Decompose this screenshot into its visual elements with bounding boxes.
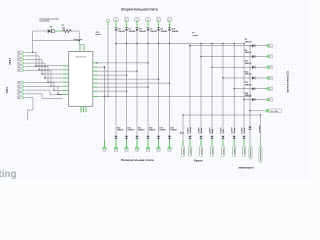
connector XS2 pin 2: [17, 85, 23, 87]
wire XS1.5 to U1: [25, 66, 48, 68]
wire D16 out: [126, 139, 128, 147]
svg-text:1N4007: 1N4007: [186, 127, 189, 133]
svg-text:1N4148: 1N4148: [245, 83, 252, 86]
wire D9 down: [158, 31, 160, 134]
wire XS1.2 to U1: [25, 55, 39, 57]
wire XS2.5 down: [25, 97, 33, 99]
wire B6 stub: [243, 139, 245, 146]
svg-text:Вторая большая плата: Вторая большая плата: [121, 7, 157, 11]
connector XS1 pin 3: [17, 58, 23, 60]
wire B5 stub: [233, 139, 235, 146]
svg-text:Вх4: Вх4: [18, 63, 21, 65]
svg-text:1N4148: 1N4148: [245, 94, 252, 97]
svg-text:замык: замык: [192, 35, 198, 37]
wire XS1.6 to U1: [25, 69, 51, 71]
diode DB5: [233, 136, 236, 139]
wire B1 stub: [189, 139, 191, 146]
terminal +5V: [266, 109, 269, 112]
svg-text:1N4007: 1N4007: [127, 129, 134, 132]
wire ST down: [182, 115, 184, 144]
svg-text:1N4148: 1N4148: [161, 30, 168, 33]
terminal out 5: [267, 87, 270, 90]
diode DC1: [249, 127, 252, 130]
wire row 5: [234, 88, 252, 90]
diode DB6: [243, 136, 246, 139]
svg-text:Вх3: Вх3: [18, 90, 21, 92]
svg-text:Прямоугольная плата: Прямоугольная плата: [121, 158, 154, 162]
wire U1 right pin 6: [98, 82, 170, 84]
terminal top 6: [167, 18, 172, 22]
terminal B2: [189, 146, 192, 157]
connector XS2 pin 1: [17, 81, 23, 83]
svg-text:Вх4: Вх4: [18, 94, 21, 96]
wire top-left supply: [33, 30, 48, 32]
terminal A1: [103, 147, 106, 150]
wire bus 5 down: [233, 44, 235, 134]
svg-text:ТЛФ 1: ТЛФ 1: [6, 86, 9, 94]
svg-text:1N4007: 1N4007: [231, 127, 234, 133]
diode D2: [252, 44, 255, 47]
pins U1 right: [93, 62, 98, 64]
svg-text:+5в (7А): +5в (7А): [270, 110, 278, 113]
svg-text:Вх5: Вх5: [18, 66, 21, 68]
wire U1 right pin 8: [98, 90, 127, 92]
svg-text:Курок: Курок: [194, 158, 203, 162]
terminal out 4: [267, 77, 270, 80]
svg-text:Вх1: Вх1: [18, 82, 21, 84]
terminal out 2: [267, 55, 270, 58]
wire D18 out: [147, 139, 149, 147]
connector XS1 pin 4: [17, 62, 23, 64]
svg-text:1N4007: 1N4007: [219, 127, 222, 133]
svg-text:220: 220: [62, 27, 65, 29]
wire row 6: [244, 99, 252, 101]
terminal B1: [182, 146, 185, 157]
wire D6 down: [136, 31, 138, 134]
wire XS1.4 to U1: [25, 62, 45, 64]
svg-text:Вх2: Вх2: [18, 56, 21, 58]
diode D14: [252, 98, 255, 101]
diode D10: [168, 28, 171, 31]
wire U1 right pin 3: [98, 70, 137, 72]
wire D13 out: [255, 88, 267, 90]
diode D5: [125, 28, 128, 31]
wire XS1.3 to U1: [25, 59, 42, 61]
svg-text:1N4148: 1N4148: [118, 30, 125, 33]
diode DB4: [222, 136, 225, 139]
wire bus 4 down: [222, 44, 224, 134]
wire C2: [260, 115, 262, 143]
wire D2 out: [255, 45, 267, 47]
terminal B4: [211, 146, 214, 157]
terminal top 1: [114, 18, 119, 22]
terminal A6: [157, 147, 160, 150]
svg-text:Предохр.: Предохр.: [74, 39, 84, 41]
svg-text:Повор: Повор: [234, 127, 236, 134]
terminal A5: [146, 147, 149, 150]
connector XS2 pin 4: [17, 93, 23, 95]
wire row 1: [190, 45, 252, 47]
wire to lower right: [249, 46, 251, 126]
svg-text:Вх1: Вх1: [18, 52, 21, 54]
svg-text:Вх3: Вх3: [18, 59, 21, 61]
diode D4: [115, 28, 118, 31]
wire U1 right pin 5: [98, 78, 159, 80]
diode D6: [136, 28, 139, 31]
terminal A3: [125, 147, 128, 150]
wire U1 right pin 7: [98, 86, 148, 88]
svg-text:1N4007: 1N4007: [159, 129, 166, 132]
svg-text:Стоп: Стоп: [223, 129, 225, 133]
svg-text:третья плата (1): третья плата (1): [286, 71, 290, 92]
wire branch to VDD: [33, 40, 80, 42]
terminal out 3: [267, 66, 270, 69]
wire D7 down: [147, 31, 149, 134]
diode D7: [147, 28, 150, 31]
bus net C: [183, 114, 261, 116]
wire row 4: [223, 77, 252, 79]
wire D15 out: [115, 139, 117, 147]
terminal A2: [114, 147, 117, 150]
pin U1 top: [79, 45, 81, 52]
svg-text:Вх6: Вх6: [18, 70, 21, 72]
junction U1 pin1: [96, 62, 97, 63]
svg-text:1N4007: 1N4007: [208, 127, 211, 133]
terminal B3: [200, 146, 203, 157]
wire ST stub: [182, 141, 184, 146]
wire B4 stub: [222, 139, 224, 146]
svg-text:(имп): (имп): [96, 34, 102, 36]
terminal out 1: [267, 44, 270, 47]
wire left terminal: [104, 67, 106, 140]
terminal B5: [222, 146, 225, 157]
background sheet: [0, 0, 310, 180]
junction left top: [32, 52, 33, 53]
wire bus 6 down: [243, 44, 245, 134]
connector XS1 pin 2: [17, 55, 23, 57]
svg-text:PIC16F628: PIC16F628: [76, 57, 87, 59]
wire D3 out: [255, 56, 267, 58]
svg-text:1N4148: 1N4148: [129, 30, 136, 33]
bus net A: [116, 43, 243, 45]
svg-text:1N4148: 1N4148: [245, 73, 252, 76]
svg-text:1N4007: 1N4007: [138, 129, 145, 132]
terminal C2: [259, 146, 262, 163]
pin 12V input: [106, 19, 109, 21]
wire B3 stub: [211, 139, 213, 146]
svg-text:1N4148: 1N4148: [139, 30, 146, 33]
svg-text:1N4007: 1N4007: [170, 129, 177, 132]
wire D4 down: [115, 31, 117, 134]
wire bus 3 down: [211, 44, 213, 134]
terminal B6: [233, 146, 236, 157]
wire terminal A1: [104, 140, 106, 147]
wire XS2.3: [25, 89, 50, 91]
diode DB1: [189, 136, 192, 139]
wire U1 right pin 2: [98, 66, 105, 68]
diode D13: [252, 87, 255, 90]
diode DB2: [200, 136, 203, 139]
connector XS1 pin 1: [17, 51, 23, 53]
wire D10 down: [169, 31, 171, 134]
op-amp U1 microcontroller: [69, 52, 93, 107]
svg-text:Вх5: Вх5: [18, 97, 21, 99]
terminal out 6: [267, 98, 270, 101]
wire XS2.4: [25, 93, 42, 95]
wire D11 out: [255, 66, 267, 68]
svg-text:ТЛФ 9: ТЛФ 9: [9, 57, 12, 65]
wire XS2.2 to U1: [25, 85, 58, 87]
wire D5 down: [126, 31, 128, 134]
svg-text:минивыкл: минивыкл: [239, 166, 254, 170]
wire row 2: [201, 56, 252, 58]
terminal top 5: [156, 18, 161, 22]
svg-text:1N4007: 1N4007: [197, 127, 200, 133]
wire row 3: [212, 66, 252, 68]
svg-text:Вх2: Вх2: [18, 86, 21, 88]
svg-text:блок (12v): блок (12v): [40, 20, 50, 23]
terminal top 4: [146, 18, 151, 22]
svg-text:ting: ting: [0, 169, 16, 180]
wire +5V: [250, 110, 267, 112]
svg-text:1N4007: 1N4007: [149, 129, 156, 132]
terminal top 2: [124, 18, 129, 22]
diode D12: [252, 77, 255, 80]
wire B2 stub: [200, 139, 202, 146]
svg-text:1N4007: 1N4007: [117, 129, 124, 132]
svg-text:Замок: Замок: [201, 128, 203, 134]
connector XS1 pin 6: [17, 69, 23, 71]
pin U1 bottom: [80, 106, 82, 112]
terminal top 3: [135, 18, 140, 22]
wire XS1.1 to U1: [25, 51, 36, 53]
wire D19 out: [158, 139, 160, 147]
svg-text:Багаж: Багаж: [244, 128, 246, 134]
svg-text:1N4148: 1N4148: [245, 62, 252, 65]
wire D17 out: [136, 139, 138, 147]
wire U1 right pin 4: [98, 74, 127, 76]
wire XS2.1 to U1: [25, 82, 54, 84]
junction row1 tap: [249, 45, 250, 46]
svg-text:Сирена: Сирена: [190, 126, 192, 134]
terminal A7: [168, 147, 171, 150]
connector XS2 pin 5: [17, 97, 23, 99]
wire D14 out: [255, 99, 267, 101]
svg-text:1N4148: 1N4148: [172, 30, 179, 33]
diode D9: [157, 28, 160, 31]
connector XS1 pin 5: [17, 66, 23, 68]
wire bus 1 down: [189, 44, 191, 134]
diode D3: [252, 55, 255, 58]
wire bus 2 down: [200, 44, 202, 134]
svg-text:1N4148: 1N4148: [150, 30, 157, 33]
wire to U1 VDD: [78, 31, 80, 45]
wire U1 right pin 1: [98, 62, 148, 64]
svg-text:1N4007: 1N4007: [240, 127, 243, 133]
svg-text:1N4148: 1N4148: [245, 40, 252, 43]
terminal B7: [243, 146, 246, 157]
pins U1 left: [63, 65, 69, 67]
diode DB3: [211, 136, 214, 139]
diode D11: [252, 66, 255, 69]
wire D12 out: [255, 77, 267, 79]
connector XS2 pin 3: [17, 89, 23, 91]
terminal C1: [249, 146, 252, 159]
bus net B: [98, 95, 250, 97]
terminal A4: [135, 147, 138, 150]
wire D20 out: [169, 139, 171, 147]
svg-text:1N4148: 1N4148: [245, 51, 252, 54]
